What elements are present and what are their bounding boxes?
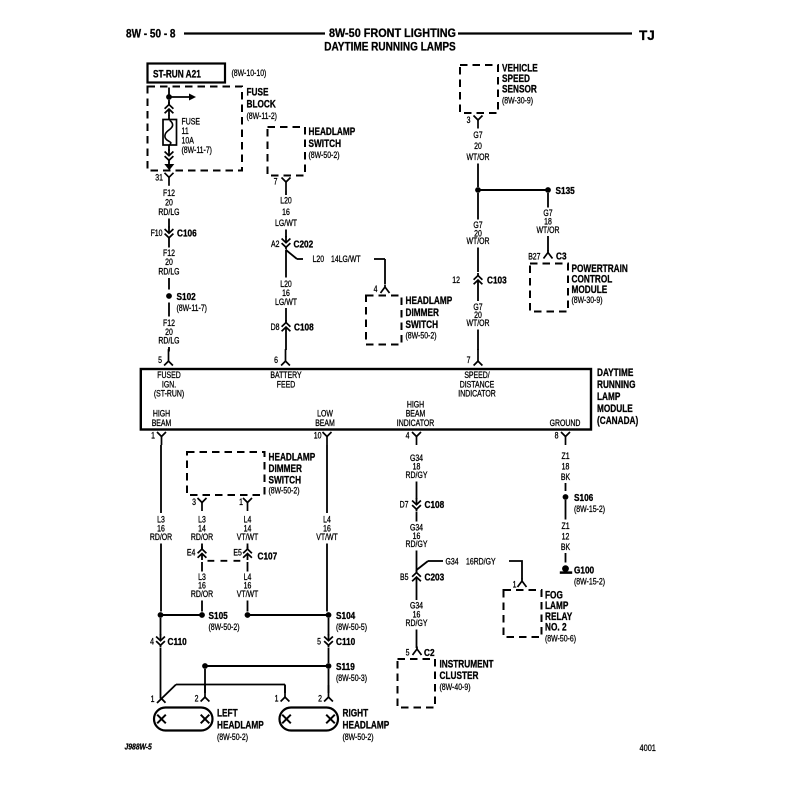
svg-text:BEAM: BEAM	[152, 418, 172, 428]
svg-text:Z1: Z1	[561, 451, 570, 461]
svg-text:INDICATOR: INDICATOR	[397, 418, 435, 428]
svg-text:LG/WT: LG/WT	[275, 297, 297, 307]
svg-text:E5: E5	[233, 547, 242, 557]
svg-text:C203: C203	[425, 572, 445, 583]
svg-text:4: 4	[374, 284, 378, 294]
svg-text:BEAM: BEAM	[315, 418, 335, 428]
svg-text:(8W-50-2): (8W-50-2)	[269, 486, 300, 496]
svg-text:TJ: TJ	[639, 28, 655, 43]
svg-text:2: 2	[195, 694, 199, 704]
svg-text:L20: L20	[313, 254, 325, 264]
svg-text:4: 4	[406, 431, 410, 441]
svg-text:7: 7	[274, 177, 278, 187]
svg-text:WT/OR: WT/OR	[466, 318, 489, 328]
svg-text:WT/OR: WT/OR	[466, 236, 489, 246]
svg-text:16RD/GY: 16RD/GY	[466, 557, 496, 567]
svg-text:(8W-30-9): (8W-30-9)	[502, 96, 533, 106]
svg-text:14LG/WT: 14LG/WT	[331, 254, 361, 264]
svg-text:8W - 50 - 8: 8W - 50 - 8	[126, 27, 176, 41]
svg-text:VT/WT: VT/WT	[237, 589, 259, 599]
svg-text:LAMP: LAMP	[597, 391, 621, 403]
svg-text:RD/OR: RD/OR	[191, 589, 213, 599]
svg-text:C106: C106	[177, 228, 197, 239]
svg-text:C202: C202	[294, 239, 314, 250]
svg-text:C2: C2	[424, 647, 435, 658]
svg-text:1: 1	[513, 580, 517, 590]
svg-text:HEADLAMP: HEADLAMP	[406, 295, 453, 307]
svg-text:E4: E4	[187, 547, 196, 557]
svg-text:G100: G100	[574, 565, 594, 576]
svg-text:J988W-5: J988W-5	[125, 742, 153, 752]
svg-text:FEED: FEED	[277, 379, 296, 389]
svg-text:RD/GY: RD/GY	[406, 539, 428, 549]
svg-text:D7: D7	[400, 500, 409, 510]
svg-text:(8W-11-7): (8W-11-7)	[182, 145, 213, 155]
svg-text:RUNNING: RUNNING	[597, 379, 635, 391]
svg-text:S105: S105	[209, 610, 228, 621]
svg-text:B5: B5	[400, 572, 409, 582]
svg-text:D8: D8	[271, 322, 280, 332]
svg-text:FUSE: FUSE	[247, 86, 269, 98]
svg-text:L20: L20	[280, 196, 292, 206]
svg-text:7: 7	[467, 355, 471, 365]
svg-text:(8W-10-10): (8W-10-10)	[232, 68, 267, 78]
svg-text:(8W-50-2): (8W-50-2)	[217, 732, 248, 742]
svg-text:RD/LG: RD/LG	[158, 207, 179, 217]
svg-text:RIGHT: RIGHT	[343, 707, 369, 719]
svg-text:S135: S135	[556, 185, 575, 196]
svg-text:(8W-50-5): (8W-50-5)	[336, 622, 367, 632]
svg-text:(8W-40-9): (8W-40-9)	[440, 682, 471, 692]
svg-text:INDICATOR: INDICATOR	[458, 389, 496, 399]
svg-text:(8W-50-2): (8W-50-2)	[406, 331, 437, 341]
svg-text:12: 12	[562, 532, 570, 542]
svg-text:3: 3	[467, 115, 471, 125]
svg-text:C108: C108	[294, 322, 314, 333]
svg-text:RD/GY: RD/GY	[406, 618, 428, 628]
svg-text:DAYTIME RUNNING LAMPS: DAYTIME RUNNING LAMPS	[324, 40, 456, 54]
svg-text:3: 3	[192, 497, 196, 507]
svg-text:(8W-15-2): (8W-15-2)	[574, 504, 605, 514]
svg-text:S102: S102	[177, 291, 196, 302]
svg-text:LEFT: LEFT	[217, 707, 238, 719]
svg-text:VT/WT: VT/WT	[316, 532, 338, 542]
svg-text:C103: C103	[487, 275, 507, 286]
svg-text:(8W-50-2): (8W-50-2)	[343, 732, 374, 742]
svg-text:(ST-RUN): (ST-RUN)	[154, 389, 185, 399]
svg-text:1: 1	[151, 694, 155, 704]
svg-text:(8W-30-9): (8W-30-9)	[572, 295, 603, 305]
svg-text:RD/LG: RD/LG	[158, 336, 179, 346]
svg-text:G7: G7	[473, 130, 483, 140]
svg-text:Z1: Z1	[561, 521, 570, 531]
svg-text:5: 5	[406, 648, 410, 658]
svg-text:WT/OR: WT/OR	[466, 152, 489, 162]
svg-text:SENSOR: SENSOR	[502, 83, 537, 95]
svg-text:SWITCH: SWITCH	[309, 138, 342, 150]
svg-text:DIMMER: DIMMER	[406, 307, 439, 319]
svg-text:RD/OR: RD/OR	[150, 532, 172, 542]
svg-text:F10: F10	[151, 228, 163, 238]
svg-text:S104: S104	[336, 610, 355, 621]
svg-text:(8W-50-6): (8W-50-6)	[545, 633, 576, 643]
svg-text:20: 20	[474, 141, 482, 151]
svg-text:10: 10	[314, 431, 322, 441]
svg-text:12: 12	[452, 275, 460, 285]
svg-text:(8W-50-3): (8W-50-3)	[336, 673, 367, 683]
svg-text:CLUSTER: CLUSTER	[440, 670, 479, 682]
svg-text:31: 31	[155, 173, 163, 183]
svg-text:(8W-50-2): (8W-50-2)	[309, 150, 340, 160]
svg-text:DAYTIME: DAYTIME	[597, 367, 634, 379]
svg-text:C3: C3	[556, 251, 567, 262]
svg-text:C110: C110	[336, 636, 355, 647]
svg-text:LG/WT: LG/WT	[275, 218, 297, 228]
svg-text:1: 1	[151, 431, 155, 441]
svg-text:B27: B27	[528, 252, 541, 262]
svg-text:8: 8	[555, 431, 559, 441]
svg-text:A2: A2	[271, 239, 280, 249]
svg-text:ST-RUN A21: ST-RUN A21	[153, 68, 201, 80]
svg-text:(8W-15-2): (8W-15-2)	[574, 577, 605, 587]
svg-text:8W-50 FRONT LIGHTING: 8W-50 FRONT LIGHTING	[329, 26, 456, 40]
svg-text:WT/OR: WT/OR	[536, 225, 559, 235]
svg-text:BLOCK: BLOCK	[247, 98, 276, 110]
svg-text:C110: C110	[168, 636, 187, 647]
svg-text:4001: 4001	[640, 743, 657, 753]
svg-text:(CANADA): (CANADA)	[597, 415, 638, 427]
svg-text:C107: C107	[258, 551, 278, 562]
svg-text:HEADLAMP: HEADLAMP	[217, 719, 264, 731]
svg-text:C108: C108	[425, 499, 445, 510]
svg-text:(8W-11-7): (8W-11-7)	[177, 303, 208, 313]
svg-text:2: 2	[318, 694, 322, 704]
svg-text:5: 5	[317, 637, 321, 647]
svg-text:HEADLAMP: HEADLAMP	[343, 719, 390, 731]
svg-text:16: 16	[282, 207, 290, 217]
svg-text:RD/GY: RD/GY	[406, 470, 428, 480]
svg-text:1: 1	[275, 694, 279, 704]
svg-text:RD/OR: RD/OR	[191, 532, 213, 542]
svg-text:MODULE: MODULE	[597, 403, 633, 415]
svg-text:S106: S106	[574, 492, 593, 503]
svg-text:(8W-50-2): (8W-50-2)	[209, 622, 240, 632]
svg-text:VT/WT: VT/WT	[237, 532, 259, 542]
svg-text:SWITCH: SWITCH	[406, 319, 439, 331]
svg-text:G34: G34	[446, 557, 460, 567]
svg-text:HEADLAMP: HEADLAMP	[309, 126, 356, 138]
svg-text:NO. 2: NO. 2	[545, 622, 567, 634]
svg-text:18: 18	[562, 462, 570, 472]
svg-text:(8W-11-2): (8W-11-2)	[247, 111, 278, 121]
svg-text:6: 6	[274, 355, 278, 365]
svg-text:GROUND: GROUND	[550, 418, 581, 428]
svg-text:BK: BK	[561, 472, 571, 482]
svg-text:BK: BK	[561, 542, 571, 552]
svg-text:S119: S119	[336, 661, 355, 672]
svg-text:5: 5	[158, 355, 162, 365]
svg-text:RD/LG: RD/LG	[158, 267, 179, 277]
svg-text:4: 4	[150, 637, 154, 647]
